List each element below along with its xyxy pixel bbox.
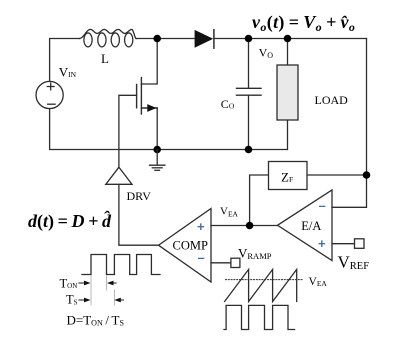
svg-text:D=TON / TS: D=TON / TS [67, 313, 124, 328]
inductor L [80, 29, 137, 38]
wire: load bottom return [249, 120, 288, 150]
wire: inductor to diode [136, 38, 194, 40]
diode D [195, 30, 214, 49]
ground [150, 150, 165, 171]
node: junction dot at drain [153, 35, 161, 43]
svg-text:L: L [101, 51, 109, 66]
arrow Ton left [79, 282, 88, 284]
svg-text:VO: VO [259, 46, 274, 61]
wire: DRV input from COMP output [119, 184, 159, 245]
waveform: PWM output bottom right [224, 305, 295, 329]
wire: capacitor bottom [248, 96, 250, 150]
svg-text:–: – [198, 250, 205, 265]
wire: EA plus input to Vref [332, 243, 355, 245]
voltage source VIN [36, 81, 63, 108]
svg-text:d(t) = D + d̂: d(t) = D + d̂ [28, 210, 112, 232]
node: junction dot VEA [246, 222, 254, 230]
capacitor CO [237, 88, 262, 95]
op-amp DRV buffer [106, 167, 132, 184]
wire: Vin top to inductor [50, 39, 80, 82]
waveform: sawtooth ramp [225, 269, 297, 301]
guide line at Ton end [106, 276, 108, 290]
wire: diode cathode to node Vo [214, 38, 367, 40]
wire: COMP minus input to Vramp [211, 262, 231, 264]
node: junction dot mosfet source at rail [153, 146, 161, 154]
svg-text:LOAD: LOAD [315, 93, 349, 107]
svg-text:VEA: VEA [220, 206, 239, 219]
wire: mosfet drain [141, 39, 157, 85]
arrow Ts left [79, 299, 88, 301]
node: junction dot feedback [363, 171, 371, 179]
op-amp EA error amplifier [278, 190, 333, 261]
resistor LOAD [277, 65, 298, 120]
transistor Q1 mosfet [137, 78, 158, 114]
dotted VEA level line [226, 279, 304, 281]
svg-text:TON: TON [60, 277, 78, 291]
svg-text:E/A: E/A [301, 219, 321, 233]
wire: Zf left leg to node VEA [250, 175, 269, 226]
svg-text:+: + [197, 219, 205, 234]
wire: right feedback drop [332, 39, 367, 208]
wire: EA output to COMP plus input [211, 225, 278, 227]
arrow Ton right [109, 282, 116, 284]
wire: Vin bottom to ground rail [50, 109, 249, 150]
svg-text:–: – [319, 198, 326, 213]
node: junction dot at rail [245, 146, 253, 154]
node: junction dot at cap top [245, 35, 253, 43]
svg-text:VIN: VIN [59, 65, 77, 80]
wire: gate drive [119, 95, 137, 167]
svg-text:vo(t) = Vo + v̂o: vo(t) = Vo + v̂o [252, 12, 355, 34]
svg-text:VREF: VREF [338, 253, 370, 273]
svg-text:VEA: VEA [309, 276, 328, 288]
source VREF terminal [355, 239, 365, 249]
svg-text:+: + [318, 236, 326, 251]
svg-text:TS: TS [66, 293, 78, 307]
wire: capacitor top [248, 39, 250, 89]
guide line at Ts end [113, 290, 115, 305]
waveform: PWM pulses top-left [82, 255, 160, 275]
svg-text:CO: CO [221, 97, 235, 111]
source VRAMP terminal [231, 258, 240, 267]
wire: mosfet source to rail [156, 108, 158, 150]
svg-text:VRAMP: VRAMP [238, 246, 272, 262]
node: junction dot at load top [284, 35, 292, 43]
guide line at Ton start [90, 276, 92, 305]
op-amp COMP [159, 209, 212, 283]
svg-text:DRV: DRV [127, 189, 152, 203]
arrow Ts right [117, 299, 124, 301]
wire: load top [287, 39, 289, 66]
feedback block Zf [269, 162, 308, 190]
wire: Zf right to feedback node [307, 174, 367, 176]
